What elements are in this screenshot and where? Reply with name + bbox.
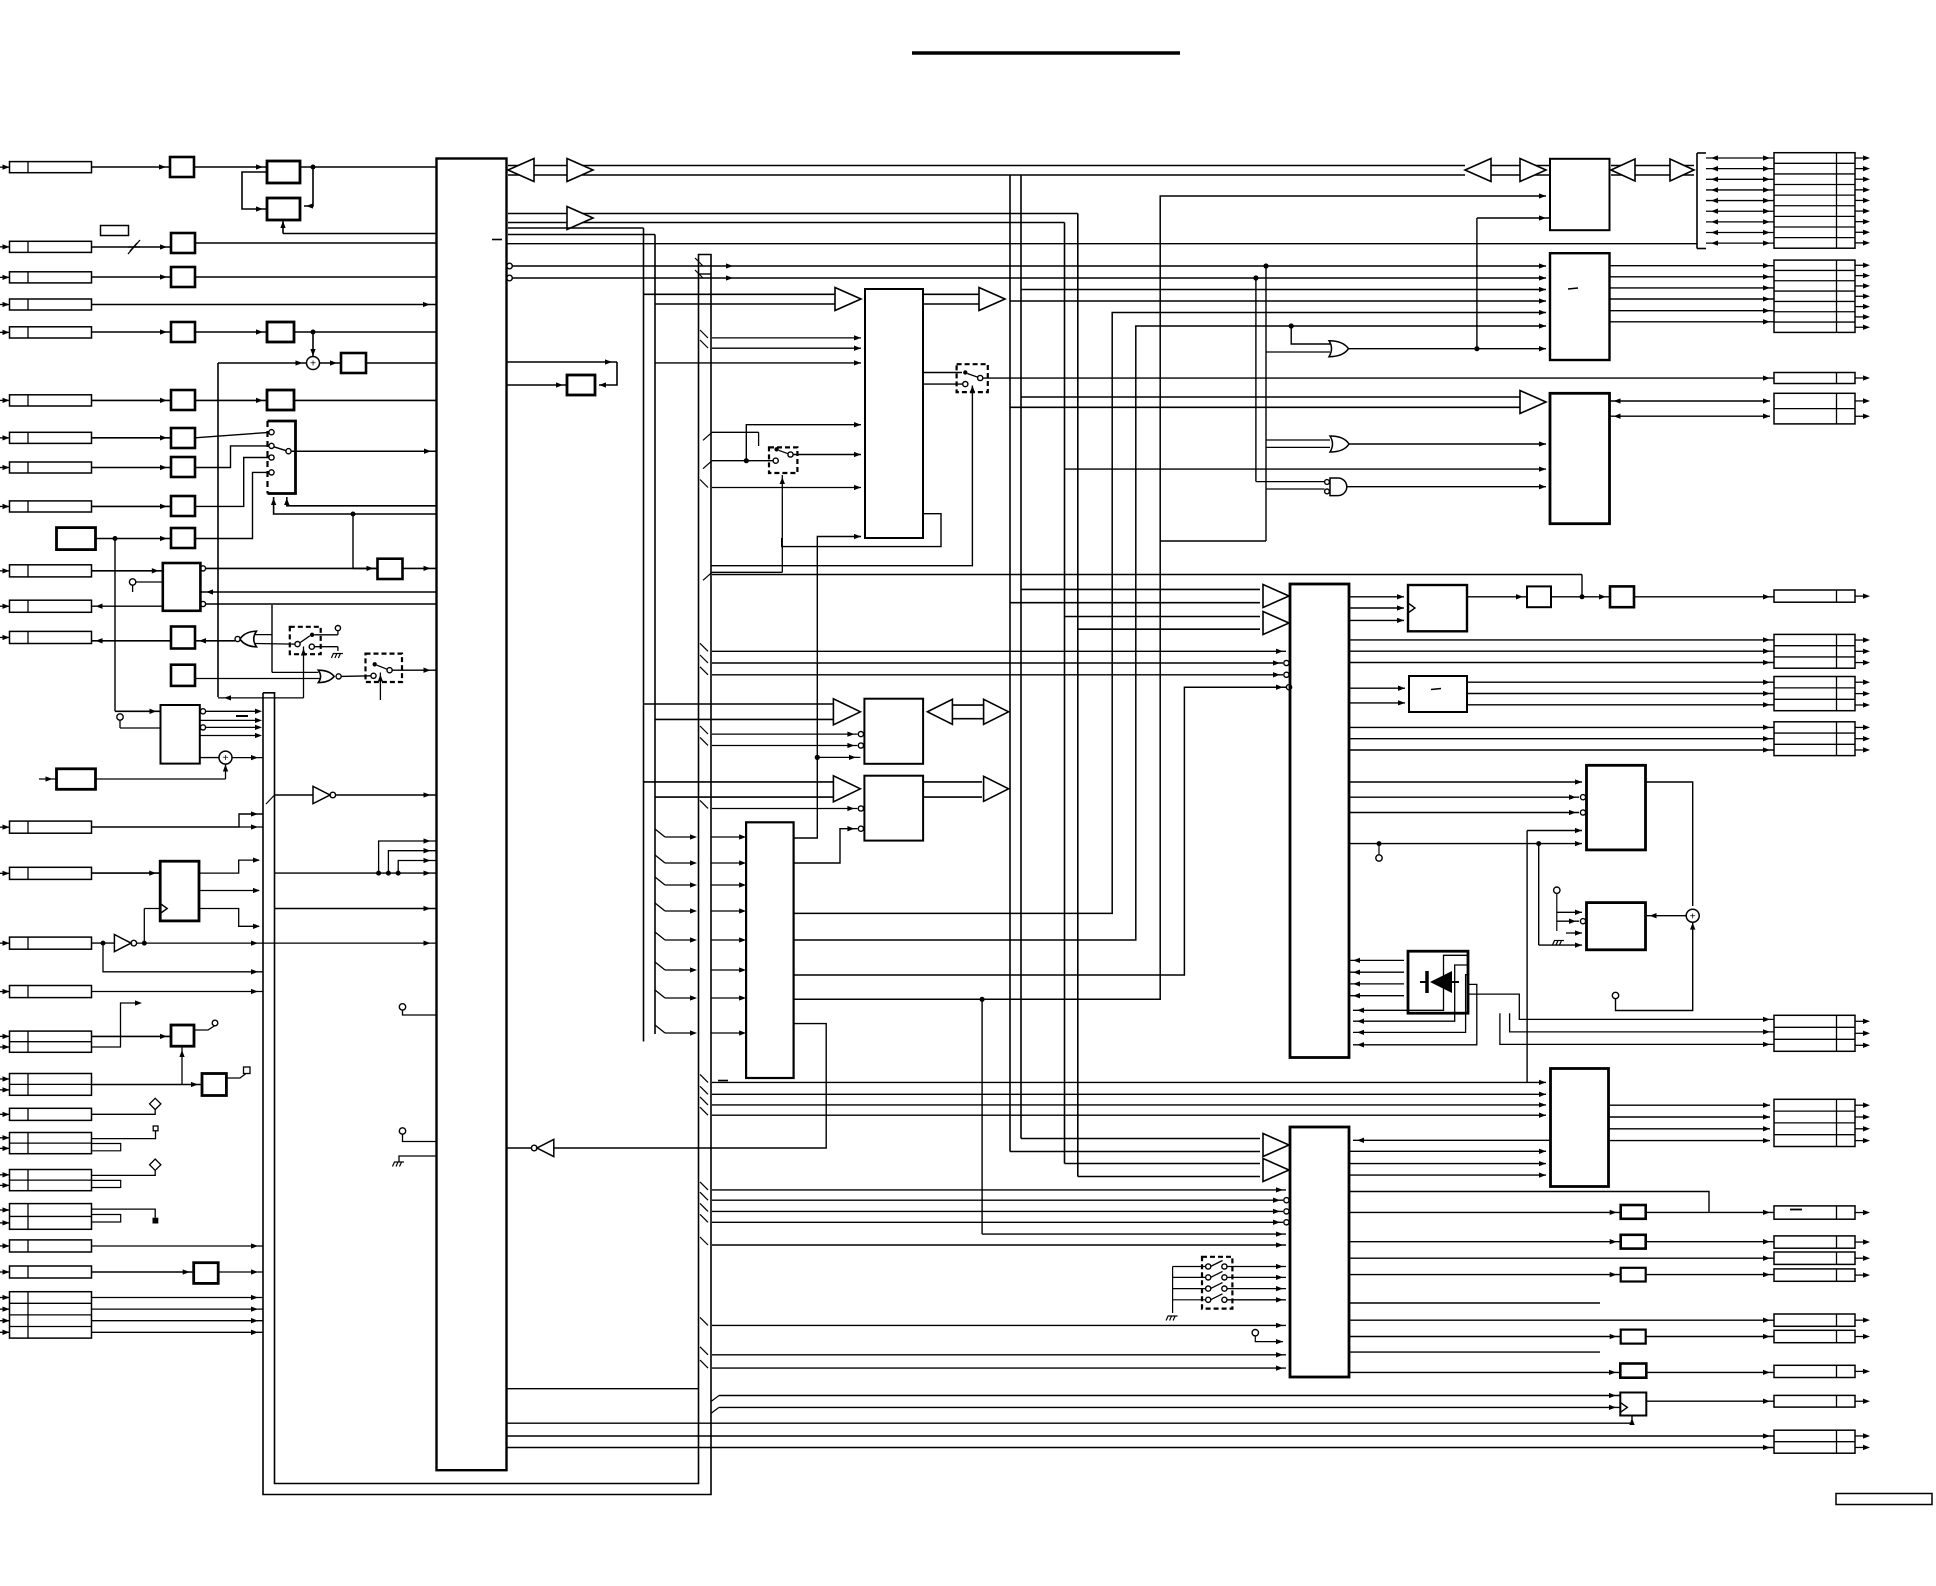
wire U4 to U5 <box>794 687 1286 975</box>
wire U1 to middle bus 2 <box>508 234 655 236</box>
U4 wire to U2/U3a <box>794 537 861 839</box>
wire to U9 mid <box>1065 468 1547 470</box>
arrowhead at U3a right <box>927 699 952 724</box>
wire into U6 bottom <box>712 1367 1286 1369</box>
open stub into B1 <box>129 579 135 585</box>
no-connect symbol <box>128 240 140 254</box>
connector P5 <box>10 327 92 338</box>
component box F9 <box>171 496 195 516</box>
diode D1 symbol <box>1430 971 1452 993</box>
bus tap row y=970 <box>655 962 665 970</box>
wire to SW6 pole <box>712 460 773 462</box>
flip-flop U10 <box>1408 585 1467 631</box>
wire P15 branch to bus <box>103 943 263 972</box>
svg-text:+: + <box>223 753 229 764</box>
long wire to U14 <box>712 1114 1546 1116</box>
connector P22 <box>10 1204 92 1230</box>
OR gate G7 <box>1330 436 1349 452</box>
B3 out 1 <box>199 860 259 873</box>
component box F6 <box>171 390 195 410</box>
title underline <box>912 51 1180 54</box>
wire into U5 a <box>712 650 1286 652</box>
bus out of U2 <box>923 293 979 295</box>
U5 to Q3 row <box>1349 738 1774 740</box>
feedback loop U12/U13 <box>1646 782 1693 906</box>
bus tap row y=1033 <box>655 1025 665 1033</box>
wire U1 long pin <box>507 243 1698 245</box>
diode block D1 <box>1408 951 1468 1013</box>
connector P4 <box>10 299 92 310</box>
test point stub <box>1378 844 1380 855</box>
arrowhead into U6 <box>1263 1134 1289 1157</box>
wire G2 to SW3 <box>341 675 371 678</box>
arrowhead to bus vertical 2 <box>984 776 1009 801</box>
bus A right arrowhead <box>567 159 593 182</box>
bus B: U1 output bus <box>508 213 1078 215</box>
U5 to U10 a <box>1349 596 1404 598</box>
component box F5 <box>341 353 366 373</box>
IC A4 <box>267 390 294 410</box>
wire into U3a in3 <box>817 756 860 758</box>
component box F14 <box>567 375 595 395</box>
test point stub 2 <box>399 1128 405 1134</box>
connector P23 <box>10 1240 92 1252</box>
wire to Q10 <box>1349 1257 1774 1259</box>
wire into U2 c <box>655 362 861 364</box>
connector P11 <box>10 600 92 612</box>
U5 to Q3 row <box>1349 749 1774 751</box>
bus A: U1 to U7 bidirectional data bus <box>508 165 1465 167</box>
G8 output to U9 <box>1347 486 1546 488</box>
OR gate G6 <box>1329 341 1349 357</box>
bus tap row y=885 <box>655 877 665 885</box>
wire into U6 <box>712 1244 1286 1246</box>
bus arrows into U5 <box>1021 588 1260 590</box>
inverter G3 <box>275 794 314 796</box>
wire SW3 to U1 <box>392 669 436 671</box>
U14 to Q7 row <box>1609 1116 1771 1118</box>
wire to gate G6 <box>1291 326 1330 344</box>
wire U14 to U6 <box>1353 1139 1550 1141</box>
component box T3 <box>194 1263 219 1284</box>
U4 to inverter G5 <box>554 1024 826 1148</box>
bus tap row y=998 <box>655 990 665 998</box>
SW6 select wire <box>781 475 783 572</box>
bus tap row y=837 <box>655 829 665 837</box>
test point stub <box>1612 992 1618 998</box>
U14 to Q7 row <box>1609 1104 1771 1106</box>
bus tap row y=940 <box>655 932 665 940</box>
arrowhead 2 into U5 <box>1263 612 1289 635</box>
IC U4 (middle block) <box>746 822 794 1078</box>
connector P20 <box>10 1133 92 1154</box>
IC A6 <box>57 769 96 790</box>
IC B3 <box>160 861 199 921</box>
U11 to Q2 row <box>1467 681 1774 683</box>
G6 output to U8 <box>1349 348 1547 350</box>
switch block SW1 <box>268 421 296 494</box>
wire into U6 bottom <box>712 1354 1286 1356</box>
SW6 out to U2 <box>793 454 861 456</box>
connector P19 <box>10 1108 92 1120</box>
stub <box>1252 1330 1258 1336</box>
wire into U2 lower <box>712 487 861 489</box>
wire to F20 <box>1349 1336 1621 1338</box>
U5 to U12 e <box>1349 843 1582 845</box>
IC U5 (tall right-middle block) <box>1290 584 1349 1058</box>
B2 out 3 <box>206 726 258 728</box>
spare connector bar <box>1836 1494 1932 1505</box>
IC U7 (right top) <box>1550 159 1610 230</box>
connector P7 <box>10 432 92 443</box>
U13 input stubs <box>1554 887 1560 893</box>
wire U6 out <box>1349 1302 1600 1304</box>
component box F12 <box>171 627 195 649</box>
wire F10 to switch <box>195 472 269 538</box>
U5 to U10 c <box>1349 619 1404 621</box>
IC U12 (amp) <box>1587 765 1646 850</box>
wire to U1 <box>283 233 437 235</box>
U10 out <box>1467 596 1527 598</box>
AND gate G8 <box>1330 478 1347 496</box>
U3a extra inputs <box>700 726 708 734</box>
connector P14 <box>10 867 92 879</box>
connector P24 <box>10 1266 92 1278</box>
IC A5 <box>57 528 96 550</box>
vertical wire to U6 <box>981 999 983 1234</box>
switch SW1 output to U1 <box>291 450 437 452</box>
IC U11 <box>1409 676 1467 712</box>
arrowhead into U3a <box>833 699 860 725</box>
U2 to SW5 <box>923 372 962 374</box>
U8 to Q18 row <box>1610 321 1775 323</box>
wire to F19 <box>1349 1274 1621 1276</box>
wire to U8 in3 <box>1021 289 1546 291</box>
diamond stub 2 <box>150 1159 161 1170</box>
wire F7 to switch <box>195 432 269 437</box>
B2 out 4 <box>200 735 258 737</box>
U14 to Q7 row <box>1609 1128 1771 1130</box>
vertical x1266 <box>1265 266 1267 541</box>
bus A2 left arrowhead <box>1611 159 1635 181</box>
ground <box>393 1162 405 1167</box>
bus vertical D1 <box>1064 223 1066 1164</box>
connector Q15 <box>1774 1395 1855 1407</box>
svg-text:+: + <box>1690 911 1696 922</box>
bus vertical C1 <box>1009 175 1011 1152</box>
main IC U1 (large vertical block) <box>437 159 507 1471</box>
arrowhead into U3b <box>833 776 860 802</box>
summing node S2 <box>200 757 219 759</box>
component box F3 <box>171 267 195 287</box>
bus U3a right (bidirectional) <box>950 704 984 706</box>
bus A arrowhead into U7 <box>1520 159 1546 182</box>
long wire to F22 clk <box>719 1406 1620 1408</box>
wire P25 row4 to bus <box>92 1331 264 1333</box>
U6 wire to Q8 <box>1349 1192 1709 1213</box>
B2 out 2 <box>200 719 258 721</box>
ground <box>1553 941 1565 946</box>
component box F1 <box>170 157 194 177</box>
U8 to Q18 row <box>1610 265 1775 267</box>
U8 to Q18 row <box>1610 287 1775 289</box>
long wire to U14 <box>712 1104 1546 1106</box>
vertical to U14 <box>1526 831 1528 1083</box>
connector P9 <box>10 501 92 512</box>
wire U6 out 2 <box>1349 1351 1600 1353</box>
connector Q10 <box>1774 1252 1855 1264</box>
long wire U1 to Q16 r2 <box>507 1447 1775 1449</box>
U6 to U14 <box>1349 1163 1546 1165</box>
vertical wire A5 to NAND B2 <box>114 539 116 712</box>
flip-flop F22 <box>1620 1393 1646 1416</box>
row jumper <box>92 1180 121 1187</box>
connector Q13 <box>1774 1330 1855 1342</box>
component box F13 <box>171 665 195 686</box>
connector Q3 <box>1774 722 1855 756</box>
connector Q16 <box>1774 1430 1855 1453</box>
U5 to Q1 row <box>1349 639 1774 641</box>
U11 to Q2 row <box>1467 704 1774 706</box>
wire U1 bottom pin <box>507 1388 699 1390</box>
component box T1 <box>171 1025 194 1046</box>
row jumper <box>92 1215 121 1223</box>
wire into U6 <box>712 1210 1283 1212</box>
stub contact <box>335 626 340 631</box>
U8 to Q18 row <box>1610 276 1775 278</box>
wire P4 to U1 <box>92 304 437 306</box>
U2 loop wire <box>782 514 941 547</box>
component box F2 <box>171 233 195 253</box>
stub into B2 <box>117 714 123 720</box>
connector Q9 <box>1774 1236 1855 1248</box>
wire F9 to switch <box>195 458 269 507</box>
U9-Q5 row2 <box>1610 415 1771 417</box>
SW5 select wire <box>711 386 972 566</box>
SW2 select wire <box>303 647 305 698</box>
wire U1 to F22 bottom <box>507 1416 1633 1424</box>
bus tap row y=911 <box>655 903 665 911</box>
bus leg wires into U1 <box>275 872 437 874</box>
long wire U1 to Q16 r1 <box>507 1435 1775 1437</box>
switch SW2 <box>290 627 321 654</box>
vertical wire to lower bus <box>217 363 219 697</box>
DIP switch block SW7 <box>1202 1257 1232 1309</box>
stub contact <box>212 1020 218 1026</box>
wire to U12 d <box>1527 830 1582 832</box>
G7 output to U9 <box>1349 443 1546 445</box>
connector P2 <box>10 241 92 252</box>
input stub <box>39 778 57 780</box>
long wire right leg to SB chain <box>712 574 1582 576</box>
switch SW6 <box>769 447 797 473</box>
connector Q12 <box>1774 1314 1855 1326</box>
component box F16 <box>1610 586 1634 607</box>
summing node S1 <box>311 330 315 334</box>
connector Q4 <box>1774 373 1855 384</box>
wire U1 pin to G1/G2 <box>271 605 273 673</box>
connector Q0 <box>1774 590 1855 602</box>
B1 outputs <box>200 566 205 571</box>
wire into gate G6 lower <box>1266 351 1330 353</box>
bus vertical C2 <box>1020 175 1022 1139</box>
wire into U6 <box>982 1233 1286 1235</box>
B3 out 3 <box>199 909 259 927</box>
IC U13 (amp) <box>1587 903 1646 950</box>
U5 to U12 c <box>1349 812 1579 814</box>
wire P25 row2 to bus <box>92 1308 264 1310</box>
wire U1 to F14 loop <box>507 361 618 363</box>
wire to Q12 <box>1349 1319 1774 1321</box>
U2 to SW5 b <box>923 383 962 385</box>
component box F7 <box>171 428 195 448</box>
wire A4 to U1 <box>294 399 437 401</box>
connector Q17 <box>1774 153 1855 249</box>
connector Q18 <box>1774 260 1855 332</box>
component box F11 <box>378 559 403 579</box>
U4 to U3b <box>794 829 858 863</box>
inverter G5 (points left) <box>537 1139 554 1156</box>
test point stub <box>399 1004 405 1010</box>
arrowhead into U9 <box>1520 391 1546 414</box>
IC B1 <box>163 563 201 611</box>
ground wire into U1 <box>399 1156 437 1162</box>
bus A left arrowhead <box>508 159 534 182</box>
long wire to U14 <box>712 1093 1546 1095</box>
component box F20 <box>1621 1330 1646 1344</box>
SW3 select wire <box>379 673 381 701</box>
wire to F18 <box>1349 1241 1621 1243</box>
connector P17 <box>10 1031 92 1052</box>
wire SW6 to U2 <box>746 425 861 461</box>
bus into U3a <box>644 703 835 705</box>
connector P25 <box>10 1292 92 1338</box>
connector Q6 <box>1774 1015 1855 1051</box>
wire P23 to bus <box>92 1245 264 1247</box>
IC U6 (tall lower block) <box>1290 1127 1349 1377</box>
connector P16 <box>10 986 92 998</box>
switch SW1 bottom feeds <box>287 497 437 506</box>
component box T2 <box>202 1074 226 1096</box>
bus frame (left leg / bottom / right leg) <box>263 255 711 1495</box>
U5 to Q1 row <box>1349 650 1774 652</box>
component box F21 <box>1620 1364 1646 1378</box>
U6 to F21 <box>1349 1371 1620 1373</box>
IC A2 <box>267 198 300 220</box>
vertical wire x353 <box>352 514 354 568</box>
wire B1 out to U1 <box>206 603 437 605</box>
IC U8 (right) <box>1550 253 1610 360</box>
wire G1 to SW2 <box>256 643 296 646</box>
connector P15 <box>10 937 92 949</box>
component box F8 <box>171 457 195 477</box>
arrowhead out of U2 <box>979 288 1005 311</box>
wire into U5 b <box>712 662 1283 664</box>
IC B2 <box>161 705 200 764</box>
connector P12 <box>10 631 92 643</box>
bus into U3b <box>644 781 835 783</box>
bus into U2 <box>644 293 836 295</box>
wire F2 to U1 <box>195 242 437 244</box>
U6 to U14 <box>1349 1150 1546 1152</box>
wire to diamond <box>92 1170 156 1175</box>
wire B1 to P11 <box>92 605 163 607</box>
connector Q8 <box>1774 1206 1855 1219</box>
connector P6 <box>10 395 92 406</box>
wire into U5 c <box>712 674 1283 676</box>
wire P16 to bus <box>92 991 264 993</box>
connector Q7 <box>1774 1099 1855 1146</box>
IC U9 (right) <box>1550 393 1610 523</box>
flip-flop U14 <box>1551 1069 1609 1187</box>
wire into U2 a <box>712 337 835 339</box>
connector P13 <box>10 821 92 833</box>
NOR gate G2 <box>318 670 334 682</box>
wire to SW2 select <box>218 697 304 699</box>
arrowhead to bus vertical <box>984 699 1009 724</box>
filled square stub <box>153 1218 158 1223</box>
clock mark on B3 <box>160 904 167 914</box>
diamond stub <box>150 1098 161 1109</box>
component box F10 <box>171 528 195 548</box>
connector Q5 <box>1774 393 1855 424</box>
component box F4 <box>171 322 195 342</box>
U8 to Q18 row <box>1610 310 1775 312</box>
wire into U2 b <box>712 347 861 349</box>
bus A arrowhead into right section <box>1465 159 1491 182</box>
bus tap row y=863 <box>655 855 665 863</box>
junction <box>980 997 984 1001</box>
component box F17 <box>1621 1205 1646 1219</box>
bus B arrowhead <box>567 207 593 230</box>
square stub <box>153 1126 158 1131</box>
connector P21 <box>10 1170 92 1191</box>
wire P25 row1 to bus <box>92 1297 264 1299</box>
IC U3b <box>864 776 923 841</box>
wire F13 to G2 <box>195 678 320 680</box>
wire into summing node <box>218 362 307 364</box>
U1 pins with circles <box>507 263 513 269</box>
IC A1 <box>267 161 300 183</box>
wire U4 to U7 <box>794 196 1546 999</box>
wire U4 to U8 a <box>794 313 1546 914</box>
wire U4 to U8 b <box>794 326 1546 940</box>
wire U1 to middle bus <box>508 227 644 229</box>
connector P3 <box>10 272 92 283</box>
stub square <box>244 1067 251 1074</box>
U6 to U14 <box>1349 1174 1546 1176</box>
U5 to Q1 row <box>1349 662 1774 664</box>
bus leg cap <box>699 273 712 275</box>
wire into U6 low <box>712 1324 1286 1326</box>
OR gate G1 (output to left, inverted) <box>240 631 257 647</box>
IC A3 <box>267 322 294 342</box>
wire A3 to U1 <box>294 331 437 333</box>
connector Q1 <box>1774 634 1855 668</box>
long wire SW5 to Q4 <box>983 377 1774 379</box>
wire U1 to B1 <box>200 591 436 593</box>
U5 to U12 a <box>1349 781 1582 783</box>
wire into U6 <box>712 1199 1283 1201</box>
wire to U8 in4 <box>1010 300 1546 302</box>
bus vertical D2 <box>1077 214 1079 1177</box>
U8 to Q18 row <box>1610 298 1775 300</box>
U5 to U10 b <box>1349 607 1404 609</box>
U5 to Q3 row <box>1349 726 1774 728</box>
wire into U6 <box>712 1189 1286 1191</box>
arrowhead into U2 <box>835 288 861 311</box>
connector P18 <box>10 1074 92 1096</box>
